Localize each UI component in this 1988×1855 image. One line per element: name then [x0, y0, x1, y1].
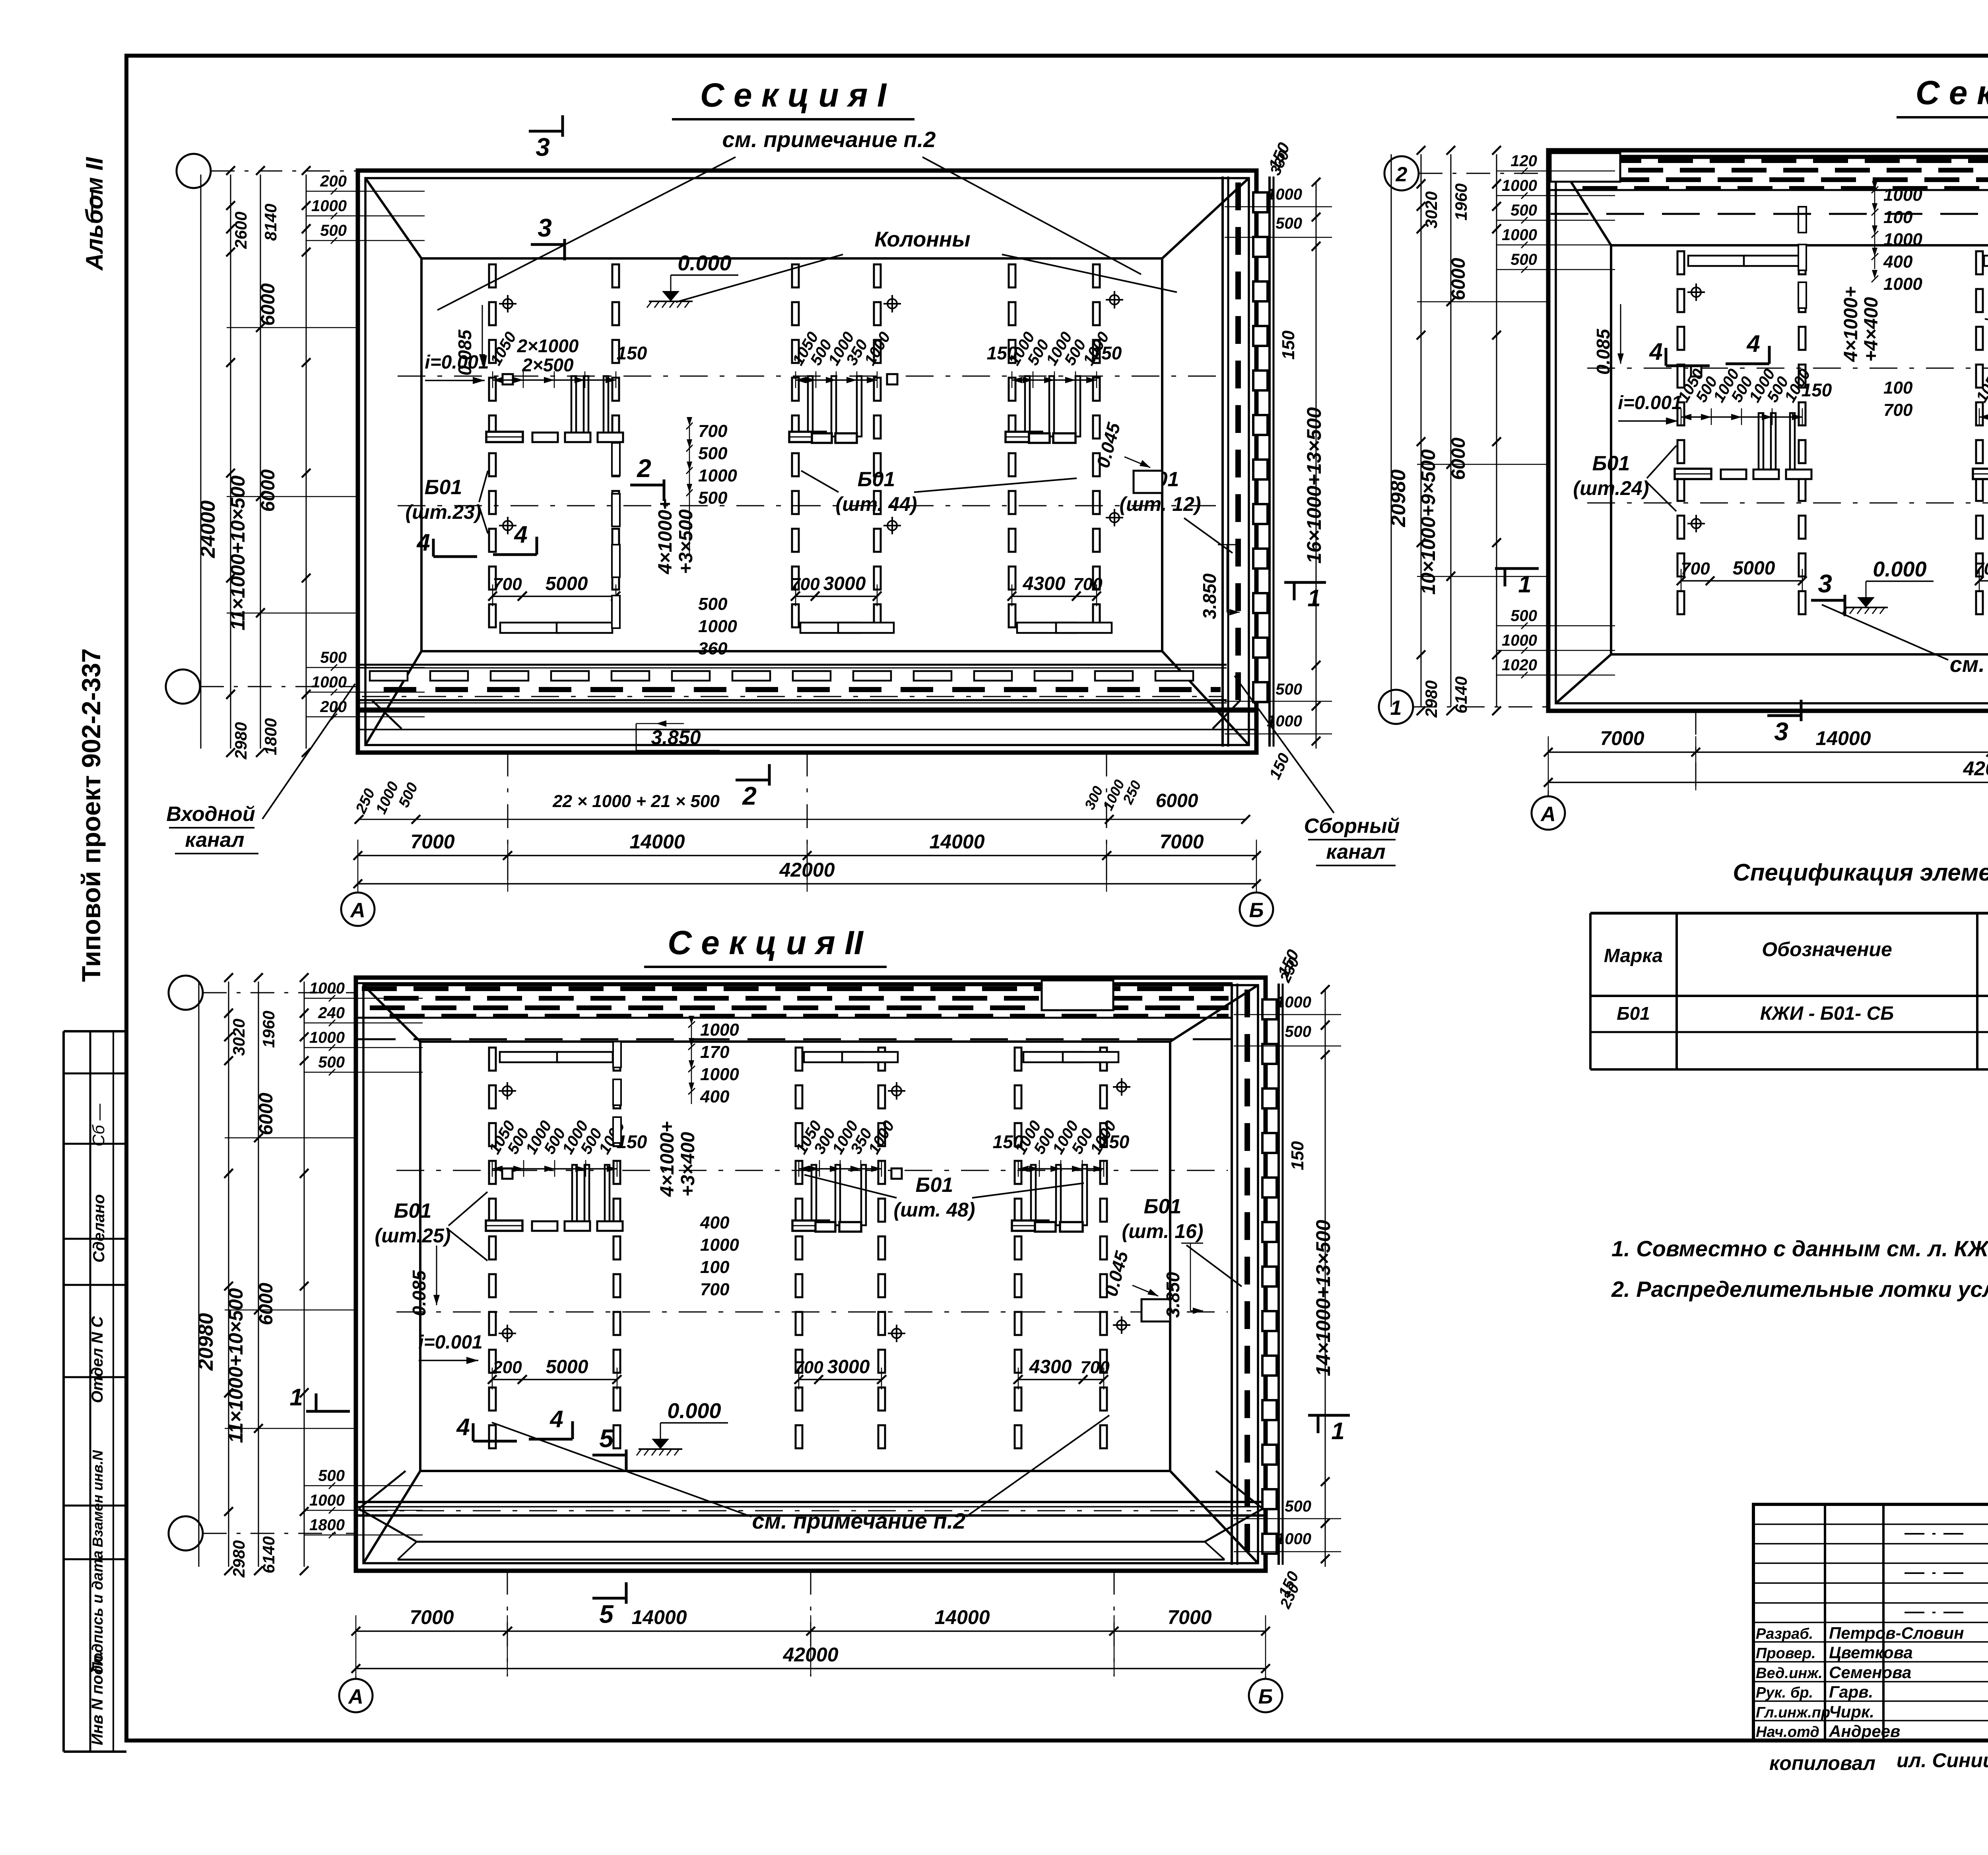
svg-text:2600: 2600 — [231, 212, 250, 249]
svg-text:22 × 1000 + 21 × 500: 22 × 1000 + 21 × 500 — [552, 792, 720, 811]
section II bottom band lines — [417, 1541, 1205, 1543]
svg-text:700: 700 — [700, 1280, 730, 1299]
svg-text:2: 2 — [742, 782, 757, 810]
svg-text:1000: 1000 — [309, 1492, 345, 1509]
svg-text:20980: 20980 — [1387, 470, 1410, 528]
section IV cut marks 4 — [1666, 365, 1710, 367]
section IV column center marks — [1687, 291, 1705, 293]
svg-text:ил. Синицына: ил. Синицына — [1897, 1749, 1988, 1772]
section IV beam group 2 toe boxes — [1984, 256, 1988, 266]
svg-text:400: 400 — [700, 1213, 730, 1232]
svg-text:1000: 1000 — [1883, 230, 1922, 249]
section II beam group 1 tee beam — [486, 1220, 522, 1231]
section I inlet channel band bottom — [359, 664, 1227, 666]
section II beam group 2 top dimension line — [799, 1168, 881, 1170]
section I elevation 0.045 with wall notch — [1134, 471, 1162, 493]
section I column center marks — [499, 303, 516, 305]
section II beam group 1 top dimension line — [492, 1168, 617, 1170]
bottom overall dimension 42000 — [1548, 782, 1988, 783]
svg-text:4: 4 — [549, 1406, 563, 1432]
svg-text:8140: 8140 — [261, 204, 280, 241]
svg-text:1000: 1000 — [309, 980, 345, 997]
section IV cut mark 1 left — [1495, 567, 1539, 570]
section II beam group 3 bottom boxes — [1035, 1222, 1056, 1232]
svg-text:4×1000+: 4×1000+ — [657, 1121, 678, 1197]
svg-text:0.085: 0.085 — [409, 1270, 429, 1316]
section II beam group 2 bottom boxes — [815, 1222, 835, 1232]
section IV beam group 1 tee beam — [1675, 469, 1711, 479]
right dimension chain — [1316, 182, 1317, 749]
svg-text:Входной: Входной — [166, 803, 255, 826]
svg-text:см. примечание п.2.: см. примечание п.2. — [1950, 652, 1988, 677]
section I collecting channel boxes — [1253, 192, 1268, 212]
svg-text:500: 500 — [1510, 202, 1537, 219]
section II beam group 2 bottom dimension — [799, 1379, 881, 1380]
section II slope toe lines — [420, 1040, 1170, 1043]
section II beam group 3 bottom dimension — [1018, 1379, 1104, 1380]
svg-text:+4×400: +4×400 — [1861, 297, 1882, 362]
section I beam group 3 bottom boxes — [1029, 433, 1050, 443]
svg-text:700: 700 — [790, 574, 820, 594]
svg-text:7000: 7000 — [1159, 830, 1204, 853]
svg-text:1000: 1000 — [1502, 226, 1537, 244]
section I corner chamfer diagonals — [365, 178, 421, 258]
svg-text:1000: 1000 — [1267, 186, 1302, 203]
section II column center marks — [499, 1090, 516, 1092]
svg-text:150: 150 — [1288, 1141, 1307, 1170]
svg-text:6140: 6140 — [1452, 676, 1470, 713]
section II inlet channel band top — [356, 982, 1233, 984]
section IV slope toe lines — [1611, 244, 1988, 246]
svg-text:1: 1 — [1518, 571, 1531, 598]
section I beam group 2 bars — [808, 376, 813, 437]
svg-text:копиловал: копиловал — [1769, 1752, 1875, 1774]
svg-text:2980: 2980 — [231, 722, 250, 759]
title block outer — [1753, 1504, 1988, 1741]
section I beam group 2 bottom dimension — [796, 596, 877, 597]
section II cut marks 5 — [592, 1454, 626, 1457]
svg-text:Нач.отд: Нач.отд — [1756, 1724, 1819, 1741]
axis circle А — [1532, 796, 1565, 830]
section I beam group 2 tee beam — [789, 432, 826, 442]
section IV axis circles — [1384, 156, 1419, 190]
svg-text:Б01: Б01 — [1592, 452, 1630, 475]
svg-text:Цветкова: Цветкова — [1829, 1643, 1913, 1662]
svg-text:Провер.: Провер. — [1756, 1645, 1816, 1662]
svg-text:500: 500 — [698, 488, 728, 508]
svg-text:14000: 14000 — [929, 830, 984, 853]
section II beam group 3 top dimension line — [1018, 1168, 1104, 1170]
svg-text:240: 240 — [318, 1004, 345, 1022]
section II column axis 3 dashes — [796, 1048, 802, 1071]
svg-text:3: 3 — [538, 213, 552, 242]
svg-text:200: 200 — [320, 173, 347, 190]
svg-text:1. Совместно с данным см.: 1. Совместно с данным см. л. КЖ - 42. — [1611, 1236, 1988, 1261]
axis circle А — [339, 1679, 373, 1712]
section IV beam group 1 bottom boxes — [1721, 470, 1746, 479]
svg-text:Б01: Б01 — [425, 476, 462, 499]
svg-text:4300: 4300 — [1029, 1356, 1072, 1378]
svg-text:(шт. 12): (шт. 12) — [1120, 493, 1201, 515]
section II beam group 1 toe boxes — [500, 1052, 559, 1062]
section I column axis 4 dashes — [874, 264, 881, 287]
svg-text:42000: 42000 — [1963, 757, 1988, 780]
section II cut mark 1 left — [306, 1410, 350, 1413]
section II corner chamfer diagonals — [363, 985, 420, 1042]
svg-text:КЖИ - Б01- СБ: КЖИ - Б01- СБ — [1760, 1003, 1894, 1024]
section I column axis 1 dashes — [489, 264, 496, 287]
svg-text:(шт. 44): (шт. 44) — [836, 493, 917, 515]
section I extra bottom dims row — [359, 819, 1246, 820]
svg-text:Б: Б — [1258, 1685, 1273, 1708]
svg-text:Б01: Б01 — [1617, 1003, 1650, 1024]
svg-text:1: 1 — [1307, 585, 1320, 611]
section II tank inner wall — [363, 985, 1258, 1563]
svg-text:5: 5 — [599, 1424, 614, 1453]
svg-text:500: 500 — [318, 1054, 345, 1071]
svg-text:500: 500 — [698, 444, 728, 463]
section II beam stack on axis B — [613, 1042, 621, 1067]
section II column axis 1 dashes — [489, 1048, 496, 1071]
svg-text:i=0.001: i=0.001 — [418, 1332, 482, 1353]
section I beam group 1 tee beam — [486, 432, 523, 442]
svg-text:100: 100 — [1883, 378, 1913, 398]
svg-text:400: 400 — [1883, 252, 1913, 272]
section II axis circles left — [169, 976, 203, 1010]
section IV beam group 1 bottom dimension — [1681, 580, 1802, 582]
section II bottom band bowtie diagonals — [359, 1471, 406, 1509]
svg-text:120: 120 — [1510, 152, 1537, 170]
section II beam group 3 tee beam — [1012, 1220, 1048, 1231]
specification table grid — [1590, 912, 1988, 915]
svg-text:1000: 1000 — [1502, 177, 1537, 194]
svg-text:6000: 6000 — [258, 283, 279, 326]
svg-text:170: 170 — [700, 1042, 730, 1062]
svg-text:150: 150 — [1802, 380, 1832, 400]
left dimension chain cross lines — [227, 327, 360, 328]
section II collecting channel dashes — [1244, 990, 1250, 1017]
svg-text:1000: 1000 — [1502, 632, 1537, 649]
svg-text:1800: 1800 — [261, 718, 280, 755]
section IV beam group 2 tee beam — [1973, 469, 1988, 479]
svg-text:3: 3 — [1774, 717, 1788, 746]
svg-text:Альбом II: Альбом II — [81, 157, 108, 271]
svg-text:700: 700 — [1883, 400, 1913, 420]
svg-text:С е к ц и я IV: С е к ц и я IV — [1916, 74, 1988, 111]
section I tank inner wall — [365, 178, 1249, 745]
svg-text:1000: 1000 — [700, 1065, 739, 1084]
svg-text:Семенова: Семенова — [1829, 1663, 1911, 1682]
svg-text:700: 700 — [1974, 559, 1988, 578]
section I beam group 1 bars — [571, 376, 576, 437]
left dimension chain cross lines — [225, 1137, 358, 1139]
section IV corner chamfer diagonals — [1556, 158, 1611, 245]
section IV beam group 1 toe boxes — [1688, 256, 1748, 266]
section I slope toe lines — [421, 257, 1162, 260]
svg-text:14000: 14000 — [934, 1606, 990, 1628]
svg-text:7000: 7000 — [1600, 727, 1644, 749]
svg-text:2980: 2980 — [229, 1540, 248, 1578]
section I cut marks 2 — [630, 484, 664, 487]
svg-text:А: А — [348, 1685, 363, 1708]
title block signature grid — [1824, 1504, 1826, 1741]
section I beam stack on axis B — [612, 443, 620, 475]
svg-text:3000: 3000 — [827, 1356, 870, 1378]
svg-text:А: А — [349, 899, 365, 922]
section I beam group 2 toe boxes — [800, 623, 860, 633]
section IV beam stack dimension labels — [1874, 191, 1875, 269]
svg-text:500: 500 — [320, 649, 347, 666]
axis circle Б — [1249, 1679, 1282, 1712]
svg-text:6000: 6000 — [1448, 437, 1469, 480]
section II beam group 1 bottom dimension — [492, 1379, 617, 1380]
svg-text:канал: канал — [1326, 840, 1385, 863]
svg-text:Петров-Словин: Петров-Словин — [1829, 1624, 1964, 1642]
section II cut marks 4 — [473, 1440, 517, 1443]
section I beam group 3 toe boxes — [1017, 623, 1077, 633]
svg-text:Обозначение: Обозначение — [1762, 938, 1892, 960]
svg-text:3.850: 3.850 — [1199, 573, 1220, 619]
svg-text:6000: 6000 — [256, 1092, 277, 1135]
left dimension chain cross lines — [1417, 301, 1550, 303]
section I beam group 3 top dimension line — [1012, 379, 1097, 381]
svg-text:Б01: Б01 — [394, 1199, 432, 1222]
bottom dimension extension lines — [1695, 711, 1697, 790]
svg-text:7000: 7000 — [1167, 1606, 1211, 1628]
svg-text:5000: 5000 — [546, 1356, 588, 1378]
svg-text:3000: 3000 — [823, 573, 866, 594]
svg-text:6000: 6000 — [1156, 790, 1198, 811]
axis circle Б — [1240, 893, 1273, 926]
svg-text:Марка: Марка — [1604, 945, 1663, 966]
svg-text:5: 5 — [599, 1600, 614, 1628]
svg-text:2: 2 — [637, 454, 651, 483]
section I collecting channel band — [1221, 177, 1224, 747]
svg-text:0.000: 0.000 — [667, 1399, 721, 1423]
left dimension chain lines — [198, 982, 200, 1567]
section IV beam stack on axis B — [1798, 207, 1806, 233]
svg-text:24000: 24000 — [196, 501, 219, 559]
svg-text:Колонны: Колонны — [874, 227, 970, 251]
section I beam group 3 bars — [1025, 376, 1030, 437]
svg-text:0.085: 0.085 — [454, 329, 475, 376]
svg-text:20980: 20980 — [194, 1313, 217, 1371]
svg-text:100: 100 — [700, 1257, 730, 1277]
section I beam group 2 bottom boxes — [812, 433, 832, 443]
svg-text:2980: 2980 — [1422, 680, 1441, 718]
svg-text:11×1000+10×500: 11×1000+10×500 — [225, 1288, 247, 1443]
section IV column axis 1 dashes — [1677, 251, 1684, 274]
svg-text:4300: 4300 — [1023, 573, 1066, 594]
svg-text:150: 150 — [1091, 343, 1122, 363]
section II collecting channel boxes — [1262, 999, 1277, 1019]
svg-text:14000: 14000 — [631, 1606, 687, 1628]
svg-text:Б01: Б01 — [1144, 1195, 1182, 1218]
section II beam group 2 tee beam — [792, 1220, 829, 1231]
svg-text:Отдел N С: Отдел N С — [89, 1316, 106, 1403]
svg-text:+3×400: +3×400 — [678, 1132, 699, 1197]
section I bottom corner diagonals — [372, 700, 402, 729]
svg-text:3: 3 — [1818, 569, 1832, 598]
section I column axis 2 dashes — [612, 264, 619, 287]
section II column axis 5 dashes — [1015, 1048, 1021, 1071]
section II horizontal axis lines — [396, 1170, 1228, 1171]
svg-text:4: 4 — [416, 529, 430, 556]
svg-text:Б: Б — [1249, 899, 1264, 922]
section IV beam group 1 top dimension line — [1681, 416, 1802, 418]
bottom dimension extension lines — [507, 753, 509, 892]
left dimension chain ticks — [1417, 146, 1425, 155]
svg-text:360: 360 — [698, 639, 728, 658]
left dimension chain lines — [1391, 154, 1392, 707]
left margin stamp column — [62, 1031, 65, 1752]
svg-text:11×1000+10×500: 11×1000+10×500 — [227, 475, 249, 631]
section II beam group 3 toe boxes — [1023, 1052, 1083, 1062]
section IV inlet box top-left — [1551, 153, 1620, 182]
svg-text:4: 4 — [1746, 330, 1760, 357]
svg-text:2. Распределительные лотки у: 2. Распределительные лотки условно не по… — [1611, 1277, 1988, 1302]
svg-text:Б01: Б01 — [916, 1174, 953, 1197]
section I beam group 3 tee beam — [1006, 432, 1042, 442]
svg-text:150: 150 — [617, 343, 647, 363]
bottom overall dimension 42000 — [358, 883, 1256, 885]
svg-text:3.850: 3.850 — [1163, 1272, 1183, 1318]
bottom dimension line 7000-14000-14000-7000 — [1548, 751, 1988, 753]
svg-text:10×1000+9×500: 10×1000+9×500 — [1417, 449, 1439, 595]
svg-text:Взамен инв.N: Взамен инв.N — [89, 1450, 106, 1547]
svg-text:Спецификация элементов к ма: Спецификация элементов к маркировочным с… — [1733, 859, 1988, 886]
svg-text:700: 700 — [1681, 559, 1710, 578]
svg-text:14000: 14000 — [629, 830, 685, 853]
svg-text:4×1000+: 4×1000+ — [655, 499, 676, 574]
section I bottom wall rail — [358, 708, 1256, 713]
section I column axis 6 dashes — [1093, 264, 1100, 287]
svg-text:0.085: 0.085 — [1593, 328, 1613, 375]
svg-text:6000: 6000 — [258, 469, 279, 512]
section I collecting channel dashes — [1235, 182, 1241, 210]
svg-text:3020: 3020 — [1422, 191, 1441, 228]
section IV horizontal axis lines — [1587, 368, 1988, 369]
svg-text:Инв N подл.: Инв N подл. — [89, 1651, 106, 1745]
section IV cut marks 3 — [1811, 599, 1845, 602]
svg-text:1000: 1000 — [700, 1235, 739, 1255]
title block dash-dot marks upper rows — [1905, 1533, 1968, 1535]
bottom dimension line 7000-14000-14000-7000 — [358, 855, 1256, 856]
axis circle А — [341, 893, 375, 926]
section II beam group 2 bars — [812, 1165, 816, 1225]
svg-text:700: 700 — [493, 574, 522, 594]
section II beam group 1 bottom boxes — [532, 1221, 557, 1231]
svg-text:500: 500 — [1276, 215, 1302, 232]
left dimension chain ticks — [226, 166, 235, 175]
bottom dimension line 7000-14000-14000-7000 — [356, 1630, 1266, 1632]
section II column axis 6 dashes — [1100, 1048, 1107, 1071]
svg-text:1: 1 — [1390, 697, 1402, 720]
section I beam group 3 bottom dimension — [1012, 596, 1097, 597]
section I horizontal axis lines — [398, 376, 1219, 377]
svg-text:Сделано: Сделано — [90, 1194, 108, 1263]
svg-text:1960: 1960 — [259, 1011, 278, 1048]
section I cut marks 3 — [529, 130, 563, 133]
svg-text:500: 500 — [1276, 681, 1302, 698]
svg-text:1: 1 — [1331, 1418, 1344, 1444]
svg-text:1000: 1000 — [311, 197, 347, 215]
svg-text:14×1000+13×500: 14×1000+13×500 — [1312, 1220, 1334, 1376]
svg-text:(шт. 16): (шт. 16) — [1122, 1220, 1204, 1242]
svg-text:500: 500 — [1510, 607, 1537, 625]
svg-text:500: 500 — [320, 222, 347, 239]
section II beam group 2 toe boxes — [804, 1052, 864, 1062]
bottom dimension extension lines — [507, 1571, 508, 1676]
svg-text:100: 100 — [1883, 208, 1913, 227]
svg-text:+3×500: +3×500 — [676, 509, 697, 574]
svg-text:Б01: Б01 — [858, 468, 895, 491]
svg-text:Разраб.: Разраб. — [1756, 1626, 1813, 1642]
svg-text:16×1000+13×500: 16×1000+13×500 — [1303, 407, 1325, 564]
section I column axis 3 dashes — [792, 264, 799, 287]
svg-text:1000: 1000 — [1276, 1530, 1311, 1548]
svg-text:Вед.инж.: Вед.инж. — [1756, 1665, 1823, 1682]
svg-text:700: 700 — [1080, 1358, 1110, 1377]
section I beam group 1 bottom boxes — [532, 433, 558, 442]
svg-text:1000: 1000 — [309, 1029, 345, 1046]
section II cut mark 1 right — [1308, 1414, 1350, 1417]
svg-text:1000: 1000 — [698, 617, 737, 636]
section I tank outer wall — [358, 171, 1256, 753]
section I beam stack dimension labels — [689, 427, 690, 555]
svg-text:2: 2 — [1396, 163, 1408, 186]
section II collecting channel band — [1231, 984, 1233, 1565]
section II column axis 2 dashes — [613, 1048, 620, 1071]
section II tank outer wall — [356, 978, 1266, 1571]
svg-text:1000: 1000 — [1883, 274, 1922, 294]
svg-text:Гарв.: Гарв. — [1829, 1682, 1873, 1701]
section IV inlet channel band top — [1548, 155, 1988, 157]
section II beam stack dimension labels — [691, 1026, 692, 1104]
svg-text:Чирк.: Чирк. — [1829, 1702, 1874, 1721]
section I beam group 1 top dimension line — [493, 379, 616, 381]
section IV column axis 3 dashes — [1976, 251, 1983, 274]
svg-text:1960: 1960 — [1452, 183, 1470, 220]
svg-text:150: 150 — [987, 343, 1017, 363]
svg-text:4×1000+: 4×1000+ — [1840, 286, 1862, 362]
section I beam group 1 bottom dimension — [493, 596, 616, 597]
svg-text:500: 500 — [1510, 251, 1537, 268]
svg-text:С е к ц и я II: С е к ц и я II — [668, 924, 864, 961]
svg-text:3.850: 3.850 — [651, 726, 701, 749]
svg-text:Андреев: Андреев — [1829, 1722, 1900, 1741]
svg-text:3020: 3020 — [229, 1019, 248, 1056]
svg-text:5000: 5000 — [546, 573, 588, 594]
svg-text:2×1000: 2×1000 — [517, 336, 579, 356]
svg-text:Сб —: Сб — — [89, 1103, 108, 1147]
svg-text:1020: 1020 — [1502, 656, 1537, 674]
svg-text:150: 150 — [993, 1131, 1023, 1152]
svg-text:0.000: 0.000 — [1873, 557, 1926, 581]
svg-text:150: 150 — [1099, 1131, 1130, 1152]
svg-text:6140: 6140 — [259, 1536, 278, 1573]
bottom overall dimension 42000 — [356, 1668, 1266, 1669]
svg-text:700: 700 — [698, 421, 728, 441]
svg-text:см. примечание п.2: см. примечание п.2 — [752, 1508, 966, 1533]
svg-text:Рук. бр.: Рук. бр. — [1756, 1684, 1813, 1701]
section I beam group 1 toe boxes — [500, 623, 560, 633]
svg-text:4: 4 — [514, 521, 527, 548]
section II inlet box top-right — [1042, 980, 1113, 1010]
svg-text:(шт.25): (шт.25) — [375, 1224, 450, 1247]
svg-text:0.000: 0.000 — [678, 251, 731, 275]
svg-text:1000: 1000 — [1276, 993, 1311, 1011]
